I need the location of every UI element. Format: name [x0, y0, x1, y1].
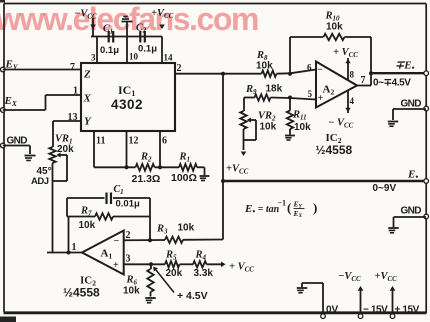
terminal -15V: [358, 305, 388, 319]
capacitor C2 0.1u: [136, 23, 157, 55]
svg-text:(: (: [287, 200, 291, 215]
feedback wire up-over: [290, 37, 371, 74]
svg-text:Z: Z: [83, 69, 91, 81]
svg-text:R11: R11: [292, 110, 307, 122]
resistor R6 10k: [123, 264, 154, 296]
wire Ex to pin1: [3, 95, 81, 110]
equation E theta: [244, 199, 317, 220]
+4.5V annotation: [153, 267, 207, 302]
svg-text:10k: 10k: [326, 22, 343, 33]
svg-text:2: 2: [177, 63, 182, 74]
pin 3 stub and label: [91, 37, 97, 64]
svg-text:+ 15V: + 15V: [395, 305, 420, 316]
+Vcc supply arrow: [375, 271, 398, 312]
svg-text:4302: 4302: [111, 97, 143, 112]
resistor R10 10k feedback: [324, 11, 345, 41]
svg-text:+: +: [113, 260, 119, 271]
wire Ey to pin7: [3, 69, 81, 71]
wire R5 to R4: [180, 263, 194, 265]
svg-text:0~∓4.5V: 0~∓4.5V: [373, 78, 411, 89]
svg-text:A2: A2: [323, 84, 335, 97]
+Vcc feed arrow: [159, 25, 165, 30]
svg-text:0V: 0V: [326, 305, 339, 316]
pin 11 stub and label: [94, 131, 105, 167]
resistor R7 10k feedback: [67, 206, 150, 232]
op-amp U2A A2: [307, 62, 366, 108]
svg-text:+ VCC: + VCC: [229, 262, 254, 274]
svg-text:7: 7: [70, 62, 75, 73]
svg-text:6: 6: [307, 63, 312, 73]
svg-text:C1: C1: [103, 24, 113, 36]
svg-text:GND: GND: [401, 99, 422, 110]
resistor R8 10k: [256, 50, 277, 77]
wire R2 to R1: [155, 166, 180, 168]
capacitor C1 0.01u feedback: [67, 184, 150, 210]
junction Etheta: [221, 179, 225, 183]
svg-text:+VCC: +VCC: [375, 271, 398, 283]
svg-text:R5: R5: [165, 250, 177, 262]
svg-text:1: 1: [72, 242, 77, 253]
svg-text:GND: GND: [401, 206, 422, 217]
scan mark top-left corner: [0, 0, 5, 3]
wire GND left to ground: [3, 146, 30, 155]
terminal GND left: [1, 136, 28, 148]
-Vcc feed arrow: [90, 18, 96, 37]
resistor R2 21.3ohm: [132, 152, 161, 186]
ground symbol R6: [145, 298, 155, 303]
svg-text:10k: 10k: [123, 286, 140, 297]
svg-text:½4558: ½4558: [316, 143, 353, 157]
pin 12 stub and label: [127, 131, 139, 167]
-Vcc supply arrow: [338, 271, 363, 312]
border frame left: [3, 4, 5, 313]
svg-text:21.3Ω: 21.3Ω: [132, 173, 161, 185]
op-amp U2B A1: [72, 230, 131, 275]
svg-text:Y: Y: [84, 116, 92, 128]
svg-text:10k: 10k: [178, 223, 195, 234]
input terminal Ey: [1, 59, 19, 72]
wire R1 to ground: [197, 167, 205, 175]
pin 4 -Vcc lead: [328, 91, 355, 130]
junction pin6: [158, 165, 162, 169]
junction A1 output feedback: [67, 251, 71, 255]
IC U1 4302 box: [81, 63, 175, 131]
svg-text:18k: 18k: [266, 84, 283, 95]
svg-text:100Ω: 100Ω: [171, 172, 197, 184]
svg-text:C1: C1: [114, 184, 124, 196]
pin 7 label: [70, 62, 75, 73]
potentiometer VR2 10k: [240, 98, 276, 151]
svg-text:8: 8: [350, 70, 355, 80]
wire GND right mid: [394, 217, 427, 227]
wire Etheta output: [223, 180, 426, 182]
label 0 to 9V: [373, 183, 397, 194]
pin 6 stub and label: [160, 131, 167, 167]
wire pin3 row: [124, 263, 165, 265]
svg-text:3: 3: [91, 53, 96, 63]
resistor R4 3.3k: [193, 250, 213, 280]
wire Etheta vertical: [222, 74, 224, 240]
ground symbol right top: [388, 122, 398, 127]
svg-text:A1: A1: [101, 248, 113, 261]
feedback vertical right: [149, 198, 151, 240]
svg-text:−VCC: −VCC: [338, 271, 361, 283]
svg-text:3: 3: [126, 254, 131, 265]
svg-text:EX: EX: [4, 95, 18, 108]
wire pin2 to R8: [175, 73, 262, 75]
svg-text:R2: R2: [140, 152, 152, 164]
pin 13 label: [68, 112, 78, 123]
svg-text:IC1: IC1: [118, 83, 135, 98]
capacitor C1 0.1u: [100, 24, 119, 57]
svg-text:6: 6: [162, 136, 167, 147]
label 0 to 4.5V: [373, 78, 411, 89]
watermark www.elecfans.com: [0, 4, 258, 34]
svg-text:10k: 10k: [256, 61, 273, 72]
svg-text:½4558: ½4558: [63, 286, 100, 300]
potentiometer VR1 20k: [49, 134, 74, 253]
svg-text:+: +: [318, 93, 324, 104]
svg-text:): ): [313, 200, 317, 215]
svg-text:−: −: [317, 65, 323, 76]
pin 10 stub and label: [127, 37, 139, 64]
svg-text:0.1μ: 0.1μ: [100, 45, 119, 56]
decoupling rail: [91, 36, 162, 38]
pin 14 stub and label: [162, 37, 173, 64]
svg-text:+VCC: +VCC: [151, 8, 174, 20]
svg-text:E• = tan: E• = tan: [244, 203, 280, 216]
svg-text:3.3k: 3.3k: [194, 268, 214, 279]
input terminal Ex: [1, 95, 18, 112]
svg-text:20k: 20k: [57, 144, 74, 155]
wire R4 to +Vcc arrow: [207, 262, 255, 274]
resistor R1 100ohm: [171, 152, 197, 185]
svg-text:11: 11: [96, 136, 105, 147]
svg-text:20k: 20k: [166, 268, 183, 279]
ground symbol R11: [285, 136, 295, 141]
A2 output wire: [357, 73, 426, 86]
IC2 half 4558 label A2: [316, 132, 353, 157]
svg-text:5: 5: [308, 89, 313, 99]
svg-text:+ VCC: + VCC: [333, 47, 358, 59]
wire pin2 to R3: [124, 239, 165, 241]
svg-text:10k: 10k: [79, 220, 96, 231]
label 45 ADJ: [31, 166, 52, 187]
svg-text:+VCC: +VCC: [226, 164, 249, 176]
junction feedback left: [288, 72, 292, 76]
pin 8 +Vcc lead: [333, 47, 358, 80]
resistor R5 20k: [165, 250, 183, 280]
ground symbol top middle: [122, 17, 133, 37]
wire R8 to pin6 of A2: [277, 70, 317, 74]
output terminal E0: [395, 60, 429, 76]
resistor R9 18k: [244, 84, 316, 101]
ground symbol R1: [200, 176, 210, 181]
svg-text:2: 2: [126, 230, 131, 241]
svg-text:X: X: [83, 93, 92, 105]
terminal +15V: [390, 305, 419, 319]
terminal GND right top: [401, 99, 429, 111]
svg-text:R4: R4: [195, 250, 207, 262]
svg-text:R9: R9: [245, 84, 257, 96]
svg-text:− 15V: − 15V: [363, 305, 388, 316]
svg-text:R1: R1: [179, 152, 191, 164]
scan smudge bottom-left: [0, 317, 16, 322]
svg-text:4: 4: [350, 96, 355, 106]
+Vcc arrow below VR2: [226, 152, 249, 176]
junction pin12: [125, 165, 129, 169]
svg-text:C2: C2: [136, 23, 147, 35]
ground symbol right mid: [388, 228, 398, 233]
pin 1 label: [73, 86, 78, 97]
resistor R3 10k: [156, 223, 195, 244]
-Vcc supply label top: [74, 9, 97, 21]
svg-text:−: −: [114, 236, 120, 247]
svg-text:12: 12: [129, 136, 139, 147]
wire GND right top: [393, 109, 426, 120]
svg-text:0.01μ: 0.01μ: [116, 199, 140, 210]
border frame top: [4, 3, 426, 5]
terminal GND right mid: [401, 206, 429, 219]
ground symbol left: [25, 156, 36, 161]
svg-text:R3: R3: [156, 224, 168, 236]
border frame right: [425, 4, 427, 314]
wire R3 to vertical: [183, 239, 223, 241]
svg-text:10k: 10k: [260, 122, 277, 133]
svg-text:1: 1: [73, 86, 78, 97]
0V jog and ground: [302, 283, 323, 312]
terminal 0V: [321, 305, 339, 319]
feedback vertical left: [67, 198, 69, 253]
svg-text:−1: −1: [278, 199, 287, 208]
svg-text:10k: 10k: [294, 122, 311, 133]
A1 output wire: [47, 252, 82, 254]
junction R6 top: [149, 262, 153, 266]
wire bottom pins rail: [94, 166, 136, 168]
junction node Etheta tap: [221, 72, 225, 76]
svg-text:14: 14: [164, 53, 174, 63]
wire pin13 to VR1: [53, 121, 81, 147]
IC2 half 4558 label A1: [63, 275, 100, 300]
pin 2 label: [177, 63, 182, 74]
svg-text:R7: R7: [80, 206, 92, 218]
svg-text:+ 4.5V: + 4.5V: [177, 290, 208, 302]
svg-text:7: 7: [361, 75, 366, 86]
junction output node: [369, 71, 373, 75]
svg-text:EY: EY: [293, 200, 303, 210]
resistor R11 10k: [287, 98, 311, 135]
svg-text:E•: E•: [407, 169, 418, 182]
svg-text:EX: EX: [293, 209, 303, 219]
ground symbol 0V: [297, 288, 307, 293]
svg-text:− VCC: − VCC: [328, 118, 354, 130]
svg-text:0.1μ: 0.1μ: [138, 44, 157, 55]
output terminal Etheta: [407, 169, 429, 184]
junction R11 top: [288, 96, 292, 100]
bottom supply rail / border: [4, 311, 427, 314]
junction pin2 feedback: [148, 238, 152, 242]
+Vcc supply label top: [151, 8, 174, 20]
svg-text:∓E•: ∓E•: [395, 60, 415, 73]
svg-text:ADJ: ADJ: [31, 176, 49, 187]
svg-text:0~9V: 0~9V: [373, 183, 397, 194]
